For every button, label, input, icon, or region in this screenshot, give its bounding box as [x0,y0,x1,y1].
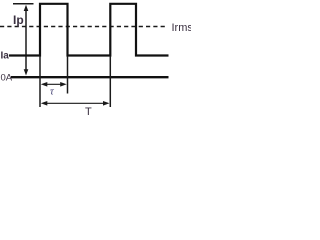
label Irms [172,22,194,34]
svg-text:T: T [85,106,92,117]
extension line at x=110 [109,56,111,107]
tau double-headed arrow [41,82,67,87]
label Ip [13,13,24,27]
svg-text:Ip: Ip [13,13,24,27]
label tau [50,87,55,98]
svg-text:Ia: Ia [1,51,10,62]
T double-headed arrow [41,101,110,106]
label Ia [1,51,10,62]
waveform pulse train [9,4,169,56]
svg-text:Irms: Irms [172,22,192,34]
extension line at x=67 [67,56,69,94]
svg-text:0A: 0A [1,73,13,84]
Ip level tick [13,3,34,5]
extension line at x=40 [39,56,41,107]
label T [85,106,92,118]
Irms dashed line [0,26,167,28]
label 0A [1,73,13,84]
Ip double-headed arrow (0A to peak) [24,5,29,76]
0A baseline [11,76,169,78]
